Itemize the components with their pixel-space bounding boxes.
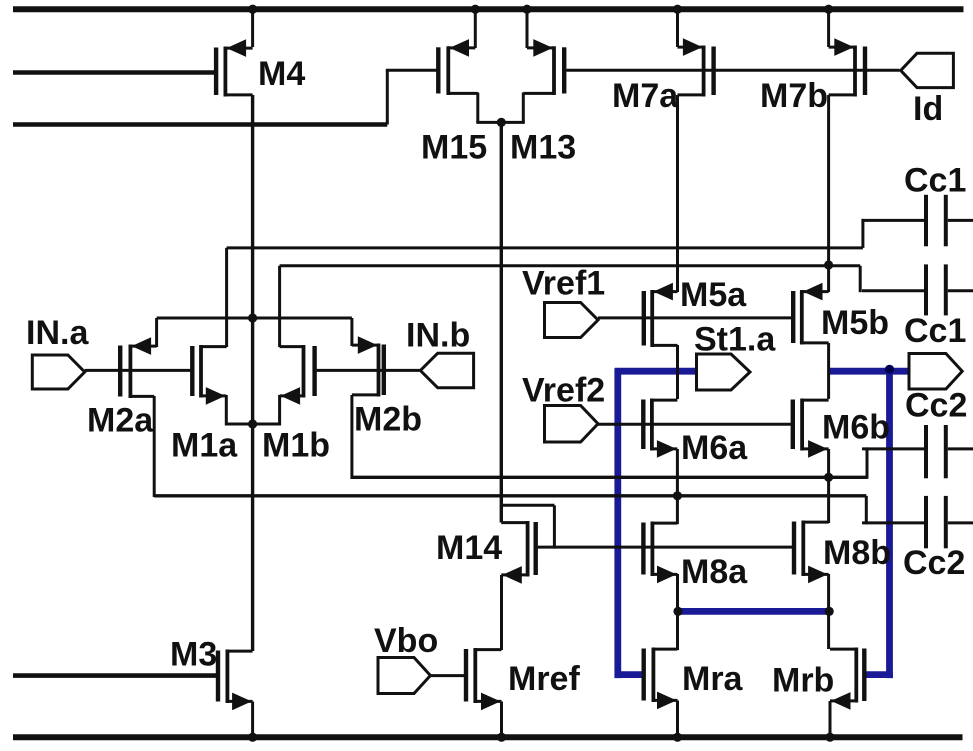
node VSS-M3 junction	[248, 733, 257, 742]
svg-text:M2a: M2a	[87, 402, 154, 440]
capacitor Cc2 lower	[862, 496, 973, 582]
transistor M8a	[641, 522, 748, 592]
svg-text:M2b: M2b	[354, 401, 422, 439]
svg-text:M1a: M1a	[171, 427, 238, 465]
wire M15 gate stub from left edge	[13, 122, 387, 127]
wire M5a drain to M6a drain	[676, 345, 679, 399]
transistor M2b	[352, 336, 422, 438]
wire first-stage wire lower	[154, 494, 866, 497]
wire node M15/M13 drain down to M14	[500, 122, 503, 522]
svg-text:Id: Id	[913, 90, 943, 128]
wire Vref2 wire	[598, 423, 791, 426]
wire input pair tail	[157, 317, 352, 320]
wire Cc1 lower elbow	[859, 266, 862, 292]
transistor M7a	[612, 38, 716, 115]
wire Mref source riser	[500, 702, 503, 738]
wire M6b source to M8b drain	[827, 449, 830, 523]
svg-text:Vref1: Vref1	[522, 265, 605, 303]
wire M1b drain elbow riser	[278, 395, 281, 426]
port St1.a	[694, 321, 776, 391]
wire IN.b wire	[317, 369, 421, 372]
node M8a/Mra blue tap junction	[673, 607, 682, 616]
svg-text:IN.b: IN.b	[406, 317, 470, 355]
wire M1a drain elbow riser	[225, 395, 228, 426]
transistor M6a	[641, 399, 748, 468]
wire Cc2 lower elbow	[865, 496, 868, 525]
svg-text:M5b: M5b	[821, 304, 889, 342]
transistor M1a	[171, 345, 238, 465]
node input pair drain junction	[248, 419, 257, 428]
wire M7b drain down to M5b source	[827, 95, 830, 292]
node VDD-M7b junction	[824, 5, 833, 14]
node VSS-Mrb junction	[825, 733, 834, 742]
wire M7b source riser	[827, 8, 830, 47]
svg-text:M7b: M7b	[760, 77, 828, 115]
svg-text:M15: M15	[421, 129, 487, 167]
port Vbo	[374, 622, 438, 694]
transistor M3	[170, 636, 253, 711]
transistor M5a	[642, 276, 748, 347]
node M8b/Mrb blue tap junction	[825, 607, 834, 616]
wire first-stage wire upper	[352, 476, 867, 479]
wire IN.a wire	[85, 369, 191, 372]
wire Mra source riser	[676, 701, 679, 738]
node VSS-Mra junction	[673, 733, 682, 742]
svg-text:M8a: M8a	[681, 553, 748, 591]
svg-text:M8b: M8b	[823, 534, 891, 572]
wire M3 source riser	[251, 702, 254, 738]
node VDD-M4 junction	[248, 5, 257, 14]
wire input pair down to M3 drain	[251, 424, 254, 651]
wire M2b source riser	[350, 318, 353, 346]
wire Vref1 wire	[598, 316, 791, 319]
wire Cc2 upper elbow	[866, 447, 869, 478]
svg-text:Cc1: Cc1	[904, 312, 966, 350]
svg-text:M5a: M5a	[680, 276, 747, 314]
wire Cc1 upper tap down to M1a source	[225, 248, 228, 347]
svg-text:M3: M3	[170, 636, 217, 674]
transistor M13	[510, 39, 576, 166]
svg-text:M4: M4	[258, 55, 305, 93]
node blue junction at output branch	[885, 365, 894, 374]
wire M15 drain elbow	[476, 93, 501, 123]
transistor M7b	[760, 38, 867, 115]
node VDD-M15 junction	[471, 5, 480, 14]
wire M4 drain down through input pair	[251, 95, 254, 424]
wire M8b source to Mrb drain	[827, 574, 830, 649]
wire Mrb source riser	[829, 701, 832, 737]
svg-text:Vref2: Vref2	[522, 372, 605, 410]
wire M14 diode connection	[501, 505, 554, 548]
transistor Mrb	[772, 648, 867, 710]
svg-text:Cc1: Cc1	[904, 162, 966, 200]
top supply rail	[13, 6, 964, 12]
svg-text:M14: M14	[436, 529, 502, 567]
wire M1a/M1b drain bus	[226, 423, 281, 426]
capacitor Cc1 lower	[862, 264, 973, 350]
node VDD-M7a junction	[673, 5, 682, 14]
transistor M15	[421, 39, 487, 166]
wire Cc1 upper elbow	[861, 219, 864, 248]
wire blue net output to Mrb gate (highlight)	[829, 368, 910, 678]
node VSS-Mref junction	[497, 733, 506, 742]
svg-text:Cc2: Cc2	[905, 387, 967, 425]
wire M2b drain riser	[350, 395, 353, 479]
node M15/M13 drain junction	[497, 118, 506, 127]
node M6b/M8b first-stage junction	[824, 473, 833, 482]
wire M7a source riser	[676, 8, 679, 47]
wire Cc1 lower tap down to M1b source	[278, 266, 281, 347]
transistor M2a	[87, 337, 157, 439]
wire M7a drain down to M5a source	[676, 95, 679, 292]
transistor M5b	[791, 283, 889, 345]
node VDD-M13 junction	[522, 5, 531, 14]
wire M8a source to Mra drain	[676, 574, 679, 650]
wire M15 source riser	[474, 8, 477, 48]
wire M13 drain elbow	[501, 93, 525, 123]
transistor Mref	[464, 648, 581, 710]
bottom supply rail	[13, 734, 963, 740]
wire M3 gate stub from left edge	[13, 673, 218, 678]
wire blue net St1.a to Mra gate (highlight)	[615, 368, 698, 678]
transistor M14	[436, 521, 538, 584]
svg-text:Mrb: Mrb	[772, 662, 834, 700]
transistor Mra	[642, 648, 744, 710]
svg-text:Cc2: Cc2	[903, 544, 965, 582]
wire M15 gate riser	[386, 70, 437, 124]
port IN.b	[406, 317, 474, 388]
wire M14 source to Mref drain	[500, 575, 503, 650]
transistor M4	[214, 39, 305, 96]
svg-text:St1.a: St1.a	[694, 321, 776, 359]
wire M5b drain to M6b drain	[827, 343, 830, 399]
port Vref2	[522, 372, 605, 443]
svg-text:M13: M13	[510, 129, 576, 167]
node M6a/M8a first-stage junction	[673, 491, 682, 500]
svg-text:Vbo: Vbo	[374, 622, 438, 660]
wire M13 source riser	[526, 8, 529, 48]
transistor M6b	[791, 399, 890, 458]
wire Cc1 lower wire	[280, 264, 861, 267]
svg-text:M6b: M6b	[822, 409, 890, 447]
port output St1 right	[909, 354, 962, 390]
port IN.a	[26, 314, 89, 389]
wire blue net Mra drain to Mrb drain (highlight)	[678, 608, 829, 615]
wire M14 gate bus to M8a/M8b	[538, 546, 792, 549]
svg-text:Mref: Mref	[508, 660, 580, 698]
capacitor Cc2 upper	[862, 387, 973, 479]
wire Cc1 upper wire	[227, 246, 863, 249]
capacitor Cc1 upper	[862, 162, 973, 247]
svg-text:Mra: Mra	[682, 660, 744, 698]
wire M4 gate stub from left edge	[13, 70, 215, 75]
svg-text:M6a: M6a	[681, 429, 748, 467]
transistor M8b	[792, 521, 891, 584]
port Vref1	[522, 265, 605, 338]
transistor M1b	[262, 345, 330, 465]
svg-text:M7a: M7a	[612, 77, 679, 115]
wire Vbo wire	[430, 674, 464, 677]
node input pair tail junction	[248, 313, 257, 322]
node Cc1 lower / M5b source junction	[824, 260, 833, 269]
wire M2a source riser	[155, 318, 158, 347]
wire gate bus M13-M7a-M7b to Id	[566, 69, 899, 72]
svg-text:M1b: M1b	[262, 427, 330, 465]
wire M6a source to M8a drain	[676, 449, 679, 524]
wire M4 source riser	[251, 8, 254, 47]
port Id	[901, 53, 954, 128]
wire M2a drain riser	[153, 396, 156, 497]
svg-text:IN.a: IN.a	[26, 314, 89, 352]
